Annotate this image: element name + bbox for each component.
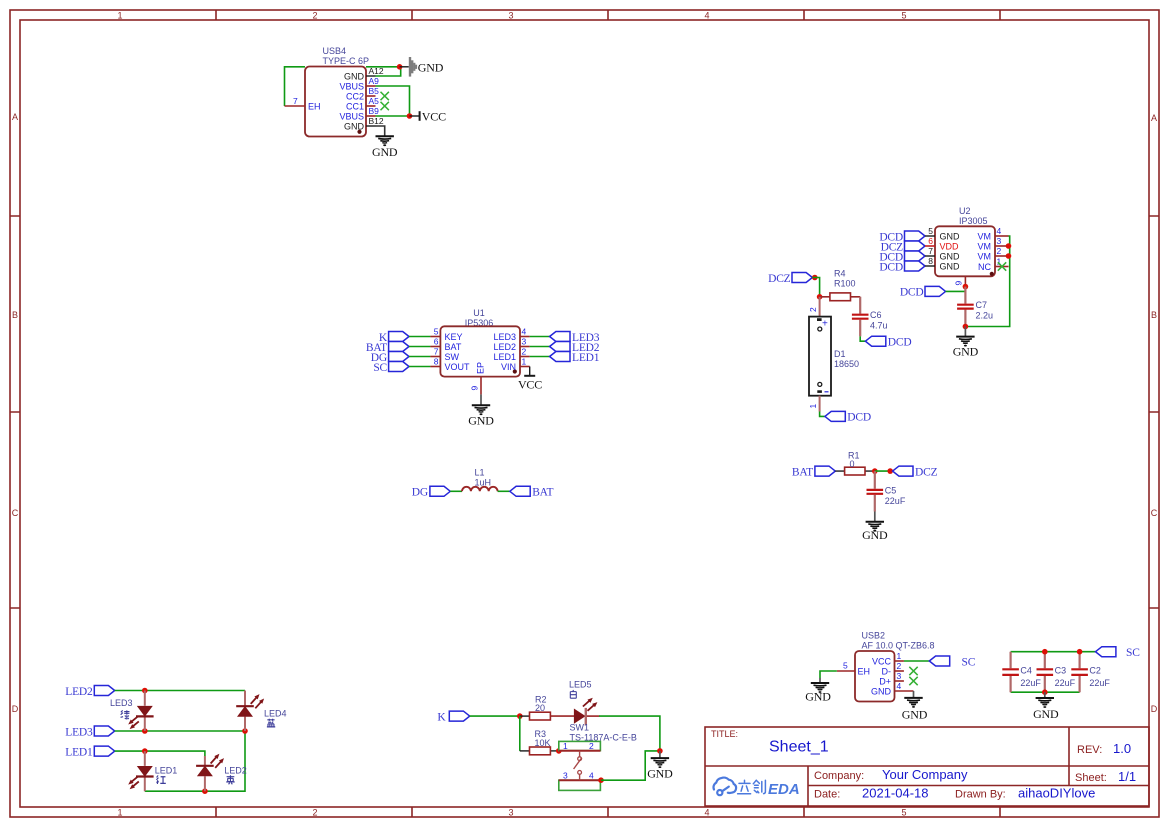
- svg-text:DCD: DCD: [879, 261, 903, 273]
- wire K: [409, 336, 430, 338]
- svg-text:8: 8: [928, 256, 933, 266]
- junction dots cap bank: [1042, 649, 1048, 655]
- pin B9 VBUS: [339, 106, 379, 122]
- svg-text:LED1: LED1: [65, 746, 93, 758]
- USB2 pin 3 D+ no-connect: [879, 671, 917, 687]
- U2 pin 2 VM: [978, 246, 1009, 262]
- svg-text:3: 3: [997, 236, 1002, 246]
- svg-text:1.0: 1.0: [1113, 741, 1131, 756]
- svg-text:VIN: VIN: [501, 362, 516, 372]
- svg-text:5: 5: [928, 226, 933, 236]
- svg-text:VCC: VCC: [422, 110, 446, 124]
- svg-text:GND: GND: [647, 767, 673, 781]
- svg-text:GND: GND: [862, 528, 888, 542]
- svg-text:4: 4: [997, 226, 1002, 236]
- svg-text:K: K: [437, 711, 446, 723]
- hanzi green: [121, 710, 130, 719]
- svg-text:22uF: 22uF: [1055, 678, 1076, 688]
- wire VM bus right: [965, 236, 1009, 327]
- svg-text:3: 3: [522, 337, 527, 347]
- netflag DCD mid: [900, 286, 946, 298]
- svg-text:2: 2: [522, 347, 527, 357]
- svg-text:7: 7: [928, 246, 933, 256]
- svg-text:B12: B12: [369, 116, 384, 126]
- U1 pin 6 BAT: [430, 337, 461, 353]
- wire gnd to SW1 pin4: [601, 751, 660, 780]
- svg-text:5: 5: [434, 327, 439, 337]
- wire B9 to VCC: [376, 115, 410, 117]
- junction dot K node: [517, 713, 523, 719]
- U1 label: [465, 308, 494, 328]
- netflag SC usb2: [929, 656, 975, 668]
- netflag LED3: [65, 726, 114, 738]
- svg-text:Sheet:: Sheet:: [1075, 772, 1107, 784]
- junction dot pin9: [963, 284, 969, 290]
- wire R1 to DCZ: [875, 470, 893, 472]
- wire R3 branch: [519, 716, 521, 751]
- wire DG: [409, 356, 430, 358]
- svg-text:22uF: 22uF: [1020, 678, 1041, 688]
- svg-text:CC2: CC2: [346, 92, 364, 102]
- svg-text:Company:: Company:: [814, 770, 864, 782]
- svg-text:Sheet_1: Sheet_1: [769, 739, 829, 756]
- svg-text:R100: R100: [834, 279, 856, 289]
- svg-text:1: 1: [117, 808, 122, 818]
- svg-text:DG: DG: [412, 487, 428, 499]
- svg-text:B: B: [1151, 310, 1157, 320]
- U1 body: [440, 326, 520, 376]
- svg-text:KEY: KEY: [445, 332, 463, 342]
- svg-text:LED2: LED2: [224, 766, 247, 776]
- junction dot SW1 pin1: [556, 748, 562, 754]
- wire EH loop: [285, 67, 400, 106]
- svg-text:LED3: LED3: [65, 726, 93, 738]
- svg-text:LED2: LED2: [65, 686, 93, 698]
- wire LED5 to gnd corner: [599, 716, 660, 751]
- netflag DCD pin7: [879, 251, 925, 263]
- hanzi white: [570, 690, 576, 698]
- capacitor C7: [957, 287, 993, 327]
- junction dot A12 net: [397, 64, 403, 70]
- svg-text:B5: B5: [369, 86, 380, 96]
- svg-text:1: 1: [897, 651, 902, 661]
- USB2 pin 5 EH: [837, 661, 870, 677]
- svg-text:USB4: USB4: [323, 46, 347, 56]
- svg-text:3: 3: [508, 11, 513, 21]
- U2 pin 4 VM: [978, 226, 1009, 242]
- ground B12: [372, 126, 398, 159]
- svg-text:GND: GND: [418, 61, 444, 75]
- svg-text:1: 1: [808, 404, 818, 409]
- svg-text:0: 0: [850, 459, 855, 469]
- svg-text:U2: U2: [959, 206, 971, 216]
- svg-text:U1: U1: [473, 308, 485, 318]
- svg-text:22uF: 22uF: [1089, 678, 1110, 688]
- svg-text:1: 1: [522, 357, 527, 367]
- svg-text:GND: GND: [940, 232, 961, 242]
- junction dot VM pin2: [1006, 253, 1012, 259]
- U1 pin 9 EP: [470, 377, 482, 395]
- svg-text:4.7u: 4.7u: [870, 321, 888, 331]
- battery D1 pin 2: [808, 297, 820, 317]
- svg-text:GND: GND: [344, 122, 365, 132]
- wire A12 to gnd: [376, 67, 401, 76]
- svg-text:GND: GND: [344, 72, 365, 82]
- svg-text:C4: C4: [1020, 666, 1032, 676]
- svg-text:VCC: VCC: [872, 657, 892, 667]
- U2 body: [935, 226, 995, 276]
- hanzi red: [156, 775, 165, 784]
- wire BAT: [409, 346, 430, 348]
- netflag SC: [373, 362, 409, 374]
- svg-text:D-: D-: [882, 667, 892, 677]
- hanzi blue: [267, 719, 275, 727]
- svg-text:VM: VM: [978, 232, 992, 242]
- svg-text:C: C: [1151, 508, 1158, 518]
- wire LED3: [530, 336, 550, 338]
- svg-text:7: 7: [434, 347, 439, 357]
- svg-text:VDD: VDD: [940, 242, 960, 252]
- capacitor C2: [1071, 652, 1110, 693]
- svg-text:VBUS: VBUS: [339, 82, 364, 92]
- U1 pin 4 LED3: [493, 327, 529, 343]
- U2 label: [959, 206, 988, 226]
- netflag BAT: [366, 342, 409, 354]
- svg-text:NC: NC: [978, 262, 991, 272]
- svg-text:VM: VM: [978, 242, 992, 252]
- svg-text:VBUS: VBUS: [339, 112, 364, 122]
- svg-text:DCD: DCD: [847, 412, 871, 424]
- svg-text:2021-04-18: 2021-04-18: [862, 786, 929, 801]
- USB2 pin 1 VCC: [872, 651, 904, 667]
- connector USB4 body: [305, 67, 366, 137]
- inductor L1: [462, 468, 498, 492]
- wire K to R2: [470, 715, 520, 717]
- ground capbank: [1033, 692, 1059, 721]
- svg-text:1uH: 1uH: [475, 477, 492, 487]
- svg-text:SW1: SW1: [570, 723, 590, 733]
- netflag LED2 right: [550, 342, 600, 354]
- ground EH: [805, 678, 831, 704]
- svg-text:Drawn By:: Drawn By:: [955, 789, 1006, 801]
- wire C6 to DCD: [860, 336, 865, 341]
- USB2 label: [862, 631, 935, 651]
- svg-text:A12: A12: [369, 66, 384, 76]
- capacitor C5: [867, 471, 906, 511]
- wire DCZ down: [812, 278, 819, 297]
- ground C5: [862, 512, 888, 543]
- capacitor C6: [852, 297, 888, 337]
- svg-text:DCZ: DCZ: [768, 273, 791, 285]
- U2 pin 1 NC no-connect: [978, 257, 1009, 273]
- U1 pin 5 KEY: [430, 327, 462, 343]
- svg-text:2: 2: [312, 808, 317, 818]
- title block: [705, 727, 1149, 806]
- svg-text:3: 3: [563, 770, 568, 780]
- LED LED1 red: [128, 751, 177, 791]
- USB2 body: [855, 651, 895, 702]
- U1 pin 8 VOUT: [430, 357, 470, 373]
- svg-text:IP3005: IP3005: [959, 216, 988, 226]
- junction dot DCZ: [812, 275, 818, 281]
- svg-text:EP: EP: [476, 362, 486, 374]
- U2 pin 9: [954, 276, 966, 286]
- LED LED5 white: [569, 680, 600, 726]
- junction dots led rails: [142, 688, 148, 694]
- netflag DCZ right: [893, 466, 938, 478]
- svg-text:D: D: [12, 704, 19, 714]
- svg-text:L1: L1: [475, 468, 485, 478]
- svg-text:SC: SC: [962, 656, 976, 668]
- svg-text:CC1: CC1: [346, 102, 364, 112]
- svg-text:D1: D1: [834, 349, 846, 359]
- power flag VCC top: [410, 110, 447, 124]
- svg-text:LED3: LED3: [493, 332, 516, 342]
- svg-text:5: 5: [901, 11, 906, 21]
- svg-text:Date:: Date:: [814, 789, 840, 801]
- netflag DCD pin5: [879, 231, 925, 243]
- netflag SC capbank: [1096, 647, 1141, 659]
- svg-text:DCD: DCD: [900, 287, 924, 299]
- svg-text:LED1: LED1: [155, 766, 178, 776]
- svg-text:4: 4: [897, 681, 902, 691]
- svg-text:C7: C7: [976, 300, 988, 310]
- LED LED2 yellow: [196, 754, 247, 792]
- resistor R1: [835, 451, 875, 476]
- svg-text:+: +: [822, 319, 828, 330]
- svg-text:aihaoDIYlove: aihaoDIYlove: [1018, 786, 1095, 801]
- ground C7: [953, 327, 979, 359]
- U1 pin 2 LED1: [493, 347, 529, 363]
- svg-text:LED1: LED1: [493, 352, 516, 362]
- wire LED3 rail: [115, 730, 245, 732]
- capacitor C4: [1002, 652, 1041, 693]
- svg-text:9: 9: [470, 386, 480, 391]
- svg-text:C2: C2: [1089, 666, 1101, 676]
- svg-text:5: 5: [901, 808, 906, 818]
- svg-text:B9: B9: [369, 106, 380, 116]
- junction dot C7 bottom: [963, 324, 969, 330]
- svg-text:Your Company: Your Company: [882, 767, 968, 782]
- netflag DG: [371, 352, 409, 364]
- svg-text:GND: GND: [940, 262, 961, 272]
- svg-text:SC: SC: [373, 362, 387, 374]
- svg-text:GND: GND: [805, 690, 831, 704]
- U2 pin 3 VM: [978, 236, 1009, 252]
- logo lceda: [713, 778, 736, 796]
- svg-text:4: 4: [522, 327, 527, 337]
- LED LED3 green: [110, 691, 154, 732]
- svg-text:LED1: LED1: [572, 352, 600, 364]
- svg-text:2: 2: [808, 307, 818, 312]
- USB2 pin 4 GND: [871, 681, 914, 697]
- svg-text:TITLE:: TITLE:: [711, 729, 738, 739]
- svg-text:SW: SW: [445, 352, 460, 362]
- netflag BAT right: [510, 486, 554, 498]
- pin A5 CC1 no-connect: [346, 96, 389, 112]
- resistor R2: [520, 695, 575, 721]
- USB2 pin 2 D- no-connect: [882, 661, 918, 677]
- svg-text:GND: GND: [902, 708, 928, 722]
- connector USB4 label: [323, 46, 370, 66]
- switch SW1 body: [559, 741, 601, 790]
- hanzi yellow: [226, 775, 235, 784]
- junction dot DCZ tip: [887, 468, 893, 474]
- svg-text:LED2: LED2: [493, 342, 516, 352]
- svg-text:4: 4: [589, 770, 594, 780]
- wire LED2 rail: [115, 690, 245, 692]
- svg-text:A: A: [1151, 113, 1157, 123]
- svg-text:A9: A9: [369, 76, 380, 86]
- svg-text:VM: VM: [978, 252, 992, 262]
- netflag K: [379, 332, 409, 344]
- U1 pin 1 VIN: [501, 357, 530, 373]
- netflag DCD at C6: [865, 336, 911, 348]
- U2 pin 6 VDD: [925, 236, 959, 252]
- wire cap bottom rail: [1011, 691, 1080, 693]
- junction dot R1 right: [872, 468, 878, 474]
- pin B5 CC2 no-connect: [346, 86, 389, 102]
- svg-text:1: 1: [117, 11, 122, 21]
- svg-text:USB2: USB2: [862, 631, 886, 641]
- svg-text:TYPE-C 6P: TYPE-C 6P: [323, 56, 370, 66]
- svg-text:VOUT: VOUT: [445, 362, 471, 372]
- pin A9 VBUS: [339, 76, 379, 92]
- svg-text:2: 2: [997, 246, 1002, 256]
- svg-text:LED3: LED3: [110, 698, 133, 708]
- U2 pin 7 GND: [925, 246, 960, 262]
- junction dot SW1 pin4: [598, 777, 604, 783]
- netflag BAT left: [792, 466, 835, 478]
- svg-text:GND: GND: [372, 145, 398, 159]
- svg-text:4: 4: [704, 11, 709, 21]
- svg-text:2.2u: 2.2u: [976, 311, 994, 321]
- resistor R4: [820, 269, 861, 301]
- junction dot VM pin3: [1006, 243, 1012, 249]
- LED LED4 blue: [236, 691, 286, 732]
- pin A12 GND: [344, 66, 384, 82]
- svg-text:C5: C5: [885, 486, 897, 496]
- svg-text:GND: GND: [871, 687, 892, 697]
- svg-text:EH: EH: [308, 102, 321, 112]
- svg-text:7: 7: [293, 96, 298, 106]
- svg-text:2: 2: [589, 741, 594, 751]
- U2 pin 8 GND: [925, 256, 960, 272]
- svg-text:2: 2: [312, 11, 317, 21]
- ground USB2 pin4: [902, 691, 928, 722]
- svg-text:3: 3: [508, 808, 513, 818]
- svg-text:D+: D+: [879, 677, 891, 687]
- power flag GND top: [400, 57, 444, 77]
- wire DG to L1: [450, 490, 462, 492]
- U1 pin 7 SW: [430, 347, 459, 363]
- svg-text:6: 6: [434, 337, 439, 347]
- capacitor C3: [1037, 652, 1076, 693]
- netflag K bottom: [437, 711, 469, 723]
- ground SW1: [647, 751, 673, 781]
- svg-text:22uF: 22uF: [885, 496, 906, 506]
- netflag DCD at D1: [825, 411, 871, 423]
- wire LED1 rail: [115, 751, 205, 756]
- wire EH to gnd: [820, 671, 837, 678]
- svg-text:8: 8: [434, 357, 439, 367]
- wire LED2: [530, 346, 550, 348]
- pin 7 EH: [285, 96, 321, 112]
- svg-text:C6: C6: [870, 310, 882, 320]
- svg-text:DCZ: DCZ: [915, 466, 938, 478]
- svg-text:SC: SC: [1126, 647, 1140, 659]
- U2 pin 5 GND: [925, 226, 960, 242]
- battery D1 pin 1: [808, 396, 820, 412]
- svg-text:GND: GND: [940, 252, 961, 262]
- svg-text:9: 9: [954, 281, 964, 286]
- junction dot VCC net: [407, 113, 413, 119]
- svg-text:A5: A5: [369, 96, 380, 106]
- U1 pin 3 LED2: [493, 337, 529, 353]
- netflag DG left: [412, 486, 451, 498]
- svg-text:10K: 10K: [535, 738, 551, 748]
- power flag VCC at VIN: [518, 367, 542, 392]
- svg-text:C: C: [12, 508, 19, 518]
- svg-text:GND: GND: [468, 414, 494, 428]
- netflag DCD pin8: [879, 261, 925, 273]
- svg-text:R4: R4: [834, 269, 846, 279]
- svg-text:VCC: VCC: [518, 378, 542, 392]
- svg-text:LED4: LED4: [264, 709, 287, 719]
- svg-text:BAT: BAT: [792, 466, 813, 478]
- svg-text:REV:: REV:: [1077, 744, 1102, 756]
- netflag LED1 right: [550, 352, 600, 364]
- ground U1: [468, 394, 494, 427]
- svg-text:A: A: [12, 112, 18, 122]
- svg-text:4: 4: [704, 808, 709, 818]
- wire L1 to BAT: [498, 490, 510, 492]
- svg-text:3: 3: [897, 671, 902, 681]
- svg-text:1/1: 1/1: [1118, 769, 1136, 784]
- svg-text:5: 5: [843, 661, 848, 671]
- svg-text:DCD: DCD: [888, 337, 912, 349]
- wire VCC to SC: [904, 660, 929, 662]
- resistor R3: [520, 729, 559, 755]
- wire LED1: [530, 356, 550, 358]
- svg-text:D: D: [1151, 704, 1158, 714]
- switch SW1 label: [570, 723, 637, 743]
- junction dot R4 node: [817, 294, 823, 300]
- netflag DCZ pin6: [881, 241, 925, 253]
- wire DCD mid: [946, 290, 966, 292]
- svg-text:6: 6: [928, 236, 933, 246]
- netflag LED3 right: [550, 332, 600, 344]
- svg-text:BAT: BAT: [445, 342, 462, 352]
- svg-text:2: 2: [897, 661, 902, 671]
- netflag LED2: [65, 686, 114, 698]
- wire A9 to VCC: [376, 86, 410, 116]
- svg-text:EH: EH: [858, 667, 871, 677]
- wire D1 to DCD: [820, 412, 825, 417]
- svg-text:C3: C3: [1055, 666, 1067, 676]
- svg-text:BAT: BAT: [532, 487, 553, 499]
- svg-text:AF 10.0 QT-ZB6.8: AF 10.0 QT-ZB6.8: [862, 641, 935, 651]
- wire SC: [409, 366, 430, 368]
- svg-text:20: 20: [535, 703, 545, 713]
- pin B12 GND: [344, 116, 384, 132]
- svg-text:18650: 18650: [834, 359, 859, 369]
- junction dot led5 gnd: [657, 748, 663, 754]
- battery D1 body: [809, 317, 859, 396]
- svg-text:GND: GND: [953, 345, 979, 359]
- netflag LED1: [65, 746, 114, 758]
- wire right vertical: [145, 731, 245, 791]
